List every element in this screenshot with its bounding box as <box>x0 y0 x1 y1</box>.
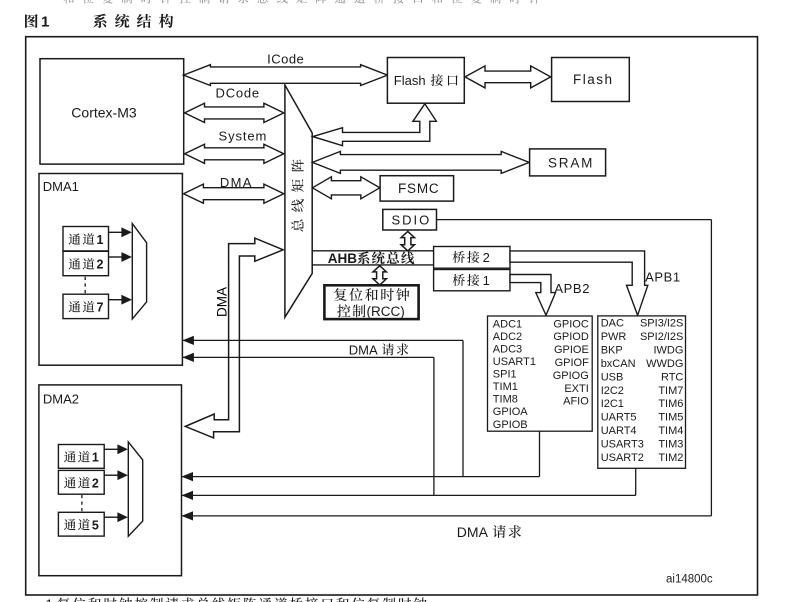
block Flash 接口 <box>387 58 464 104</box>
Flash iface double arrow <box>465 66 551 88</box>
svg-text:TIM6: TIM6 <box>658 398 683 410</box>
svg-text:DMA1: DMA1 <box>43 179 79 194</box>
block DMA2 通道1 <box>58 445 104 469</box>
label APB2 <box>554 281 590 296</box>
svg-text:WWDG: WWDG <box>646 358 683 370</box>
svg-text:PWR: PWR <box>601 331 627 343</box>
svg-text:APB2: APB2 <box>554 281 590 296</box>
svg-text:I2C1: I2C1 <box>601 398 624 410</box>
APB2 peripherals box <box>488 316 593 431</box>
svg-text:bxCAN: bxCAN <box>601 358 636 370</box>
svg-text:TIM7: TIM7 <box>658 385 683 397</box>
svg-text:2: 2 <box>92 476 99 490</box>
arrow channel to arbiter <box>104 470 128 480</box>
svg-text:TIM2: TIM2 <box>658 452 683 464</box>
block Cortex-M3 <box>40 59 184 164</box>
svg-text:SRAM: SRAM <box>548 155 594 170</box>
block Flash <box>552 58 630 102</box>
label ai14800c <box>666 574 713 586</box>
svg-text:BKP: BKP <box>601 345 623 357</box>
label DMA <box>220 175 253 190</box>
svg-text:1: 1 <box>97 233 104 247</box>
svg-text:UART4: UART4 <box>601 425 637 437</box>
svg-text:DMA: DMA <box>349 342 378 357</box>
bent arrow bus to Flash interface <box>313 104 437 146</box>
svg-text:Flash: Flash <box>573 72 614 87</box>
svg-text:GPIOG: GPIOG <box>553 370 589 382</box>
label DCode <box>216 86 260 101</box>
svg-text:GPIOD: GPIOD <box>553 331 589 343</box>
svg-text:USART1: USART1 <box>493 356 536 368</box>
svg-text:FSMC: FSMC <box>398 181 439 196</box>
label DMA vertical <box>215 287 230 317</box>
block DMA2 通道5 <box>58 512 104 536</box>
svg-text:GPIOA: GPIOA <box>493 406 529 418</box>
block DMA1 通道2 <box>63 251 109 275</box>
DCode double arrow <box>185 103 284 122</box>
svg-text:APB1: APB1 <box>645 269 681 284</box>
svg-text:SPI3/I2S: SPI3/I2S <box>640 318 683 330</box>
svg-text:SPI1: SPI1 <box>493 369 517 381</box>
AHB bus lines <box>312 251 433 265</box>
block 复位和时钟控制(RCC) <box>324 285 418 319</box>
block DMA1 通道7 <box>63 294 109 318</box>
ICode double arrow <box>184 65 388 86</box>
figure caption 系统结构 <box>93 14 173 28</box>
svg-text:AFIO: AFIO <box>563 396 589 408</box>
svg-text:GPIOE: GPIOE <box>554 344 589 356</box>
svg-text:DCode: DCode <box>216 86 260 101</box>
wire DMA request 2 to DMA1 <box>182 353 434 496</box>
svg-text:GPIOB: GPIOB <box>493 419 528 431</box>
block 桥接2 <box>434 247 510 269</box>
wire SDIO to DMA2 request 3 <box>182 511 712 520</box>
svg-text:(RCC): (RCC) <box>367 304 405 319</box>
figure caption 图1 <box>25 14 49 31</box>
svg-text:DAC: DAC <box>601 318 624 330</box>
APB2 bent arrow from 桥接1 <box>510 275 556 316</box>
svg-text:Cortex-M3: Cortex-M3 <box>71 105 137 121</box>
svg-text:SPI2/I2S: SPI2/I2S <box>640 331 683 343</box>
svg-text:1: 1 <box>483 273 490 288</box>
RCC vertical double arrow <box>373 266 386 285</box>
block SDIO <box>383 209 437 230</box>
svg-text:GPIOC: GPIOC <box>553 318 589 330</box>
dashed link DMA1 channels <box>84 277 86 294</box>
block FSMC <box>380 176 454 201</box>
SDIO vertical double arrow <box>401 231 414 251</box>
arrow channel to arbiter <box>109 227 132 237</box>
bus matrix label 总线矩阵 <box>291 159 304 231</box>
label System <box>219 128 268 143</box>
dashed link DMA2 channels <box>81 495 83 512</box>
svg-text:1.: 1. <box>46 596 57 602</box>
label DMA 请求 lower <box>457 524 521 540</box>
svg-text:EXTI: EXTI <box>564 383 588 395</box>
DMA1 arbiter trapezoid <box>132 224 146 319</box>
arrow channel to arbiter <box>109 295 132 305</box>
svg-text:TIM5: TIM5 <box>658 412 683 424</box>
wire APB1 box to DMA2 request 2 <box>182 468 636 500</box>
clipped footer text remnant <box>46 596 427 602</box>
svg-text:UART5: UART5 <box>601 412 637 424</box>
svg-text:System: System <box>219 128 268 143</box>
block DMA2 <box>39 385 182 576</box>
svg-text:DMA: DMA <box>215 287 230 317</box>
svg-text:2: 2 <box>97 258 104 272</box>
wire SDIO to right <box>437 220 712 516</box>
svg-text:Flash: Flash <box>394 73 426 88</box>
svg-text:1: 1 <box>41 14 49 31</box>
svg-text:GPIOF: GPIOF <box>555 357 590 369</box>
svg-text:TIM8: TIM8 <box>493 394 518 406</box>
label ICode <box>267 52 304 67</box>
svg-text:ADC3: ADC3 <box>493 343 522 355</box>
svg-text:SDIO: SDIO <box>392 213 432 228</box>
block DMA2 通道2 <box>58 470 104 494</box>
FSMC double arrow <box>312 177 379 199</box>
svg-text:ADC2: ADC2 <box>493 331 522 343</box>
svg-text:7: 7 <box>97 301 104 315</box>
svg-text:2: 2 <box>483 250 490 265</box>
svg-text:DMA2: DMA2 <box>43 392 79 407</box>
DMA S-bend double arrow bus matrix to DMA2 <box>185 238 283 438</box>
clipped header text remnant <box>63 0 539 4</box>
svg-text:RTC: RTC <box>661 371 683 383</box>
block DMA1 通道1 <box>63 227 109 251</box>
svg-text:TIM1: TIM1 <box>493 381 518 393</box>
arrow channel to arbiter <box>104 444 128 454</box>
DMA2 arbiter trapezoid <box>128 442 142 536</box>
svg-text:ADC1: ADC1 <box>493 318 522 330</box>
svg-text:AHB: AHB <box>328 251 357 266</box>
wire DMA request 1 to DMA1 <box>182 336 463 477</box>
block 桥接1 <box>434 270 510 291</box>
svg-text:USART2: USART2 <box>601 452 644 464</box>
APB1 bent arrow from 桥接2 <box>510 251 648 315</box>
svg-text:ICode: ICode <box>267 52 304 67</box>
label DMA 请求 upper <box>349 342 409 357</box>
svg-text:1: 1 <box>92 451 99 465</box>
svg-text:DMA: DMA <box>220 175 253 190</box>
svg-text:5: 5 <box>92 518 99 532</box>
SRAM double arrow <box>312 151 529 173</box>
svg-text:IWDG: IWDG <box>653 345 683 357</box>
svg-text:ai14800c: ai14800c <box>666 574 713 586</box>
block SRAM <box>530 149 606 176</box>
DMA double arrow <box>184 184 284 203</box>
svg-text:USART3: USART3 <box>601 438 644 450</box>
System double arrow <box>185 144 284 163</box>
APB1 peripherals box <box>598 316 686 468</box>
label AHB系统总线 <box>328 251 414 266</box>
block DMA1 <box>39 174 182 366</box>
svg-text:TIM4: TIM4 <box>658 425 683 437</box>
svg-text:I2C2: I2C2 <box>601 385 624 397</box>
wire APB2 box to DMA2 request 1 <box>182 431 540 481</box>
svg-text:TIM3: TIM3 <box>658 438 683 450</box>
bus matrix polygon <box>285 85 312 317</box>
arrow channel to arbiter <box>109 252 132 262</box>
label APB1 <box>645 269 681 284</box>
arrow channel to arbiter <box>104 512 128 522</box>
svg-text:DMA: DMA <box>457 524 489 540</box>
svg-text:USB: USB <box>601 371 624 383</box>
